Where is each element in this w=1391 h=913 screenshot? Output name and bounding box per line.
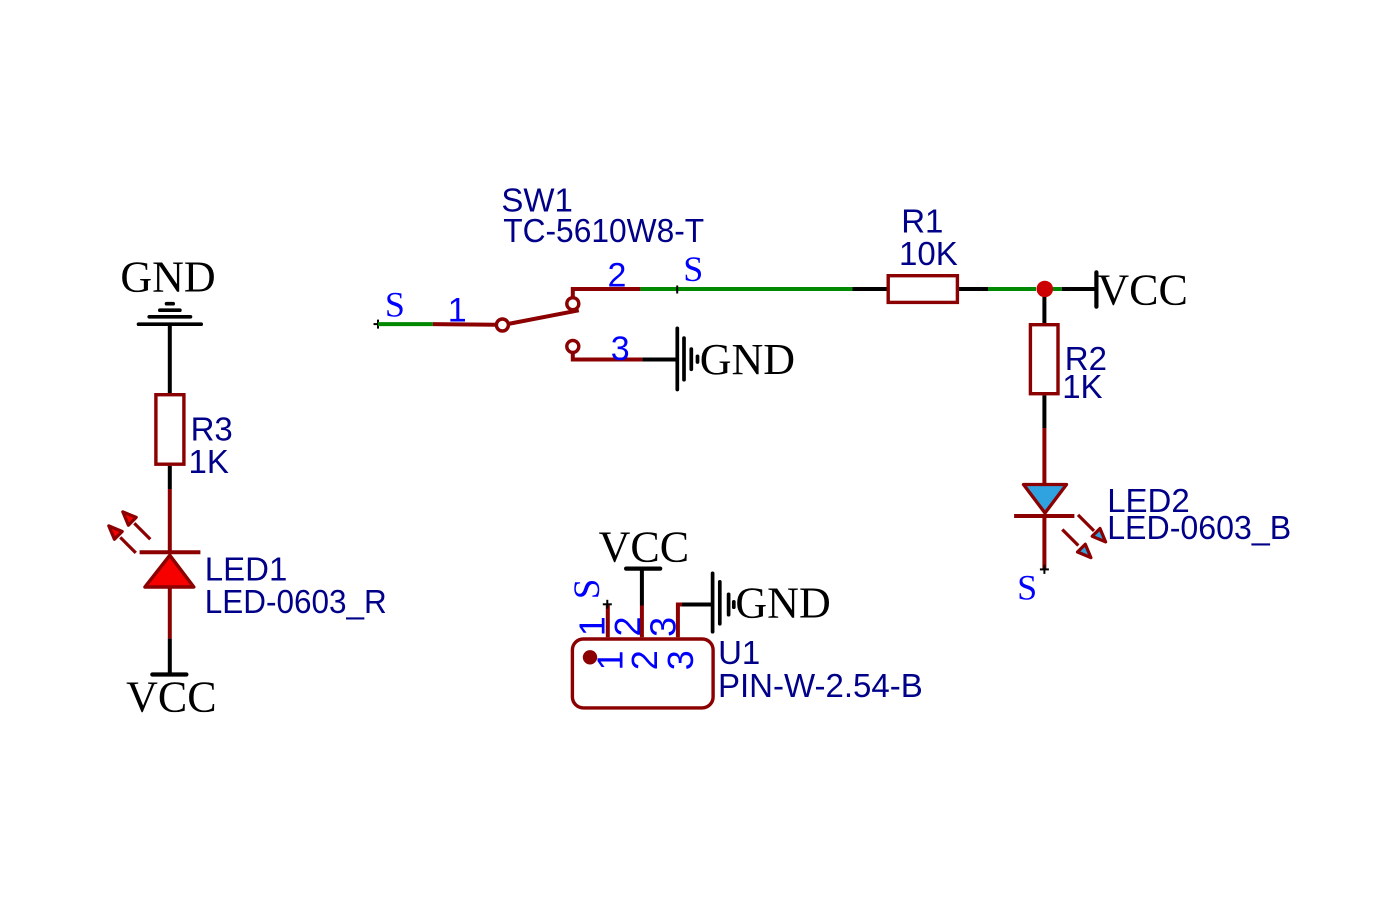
- pin wire LED2 to S (dark red): [1042, 516, 1046, 569]
- svg-text:VCC: VCC: [599, 522, 689, 571]
- svg-text:1K: 1K: [1062, 368, 1102, 405]
- switch pin 1 terminal circle: [496, 319, 508, 331]
- svg-text:1: 1: [448, 292, 467, 330]
- svg-text:GND: GND: [700, 335, 795, 384]
- resistor R3 body: [156, 395, 184, 465]
- switch pin 3 terminal circle: [567, 340, 579, 352]
- pin 2 stub (dark red): [640, 606, 644, 638]
- svg-text:1K: 1K: [189, 443, 229, 480]
- pin number 2 (rotated): [607, 616, 648, 636]
- switch pin 2 terminal circle: [567, 298, 579, 310]
- svg-text:PIN-W-2.54-B: PIN-W-2.54-B: [718, 667, 923, 704]
- svg-text:VCC: VCC: [1097, 265, 1187, 314]
- pin number 2: [608, 257, 627, 295]
- pad number 2 (rotated, inside): [624, 650, 665, 670]
- power flag VCC bottom-left: [126, 672, 216, 721]
- wire pin3 to GND (black): [642, 358, 677, 362]
- wire U1 pin3 to GND (black): [678, 603, 713, 607]
- svg-text:GND: GND: [120, 253, 215, 302]
- ground symbol top-left: [139, 304, 202, 325]
- pin 1 wire (dark red): [433, 322, 497, 327]
- svg-text:S: S: [385, 284, 405, 324]
- svg-text:3: 3: [611, 330, 630, 368]
- LED2 cathode bar: [1014, 514, 1074, 518]
- wire R1 to junction (green): [988, 287, 1036, 291]
- net label S (below LED2): [1017, 568, 1037, 608]
- svg-text:2: 2: [608, 257, 627, 295]
- wire junction to VCC (black): [1062, 287, 1097, 291]
- wire VCC to U1 pin2 (black): [640, 569, 644, 606]
- svg-text:S: S: [683, 249, 703, 289]
- wire GND to R3: [168, 324, 172, 393]
- wire junction to VCC (green): [1053, 287, 1062, 291]
- label R1 value 10K: [899, 203, 958, 273]
- svg-text:LED-0603_R: LED-0603_R: [205, 583, 387, 620]
- svg-text:R1: R1: [901, 203, 943, 240]
- pin 2 wire (dark red): [573, 289, 641, 298]
- svg-text:U1: U1: [718, 634, 760, 671]
- svg-text:10K: 10K: [899, 235, 958, 272]
- svg-text:VCC: VCC: [126, 672, 216, 721]
- label U1 PIN-W-2.54-B: [718, 634, 923, 704]
- switch lever: [509, 310, 579, 324]
- net flag GND text (U1): [735, 578, 830, 627]
- label R3 value 1K: [189, 411, 233, 480]
- pad number 3 (rotated, inside): [660, 650, 701, 670]
- svg-text:GND: GND: [735, 578, 830, 627]
- net label S (U1 pin1, rotated): [567, 579, 608, 600]
- svg-text:S: S: [567, 579, 608, 600]
- pin number 3: [611, 330, 630, 368]
- pin wire LED1 to VCC (dark red): [168, 587, 172, 639]
- ground symbol (U1): [713, 573, 734, 631]
- junction dot: [1037, 281, 1054, 298]
- LED2 triangle (blue): [1024, 485, 1067, 514]
- wire R3 to LED1 (black part): [168, 466, 172, 489]
- pin wire R2 to LED2 (dark red): [1042, 428, 1046, 483]
- LED1 cathode bar: [140, 550, 201, 554]
- net label S (left of SW1): [385, 284, 405, 324]
- label LED2 LED-0603_B: [1107, 482, 1291, 546]
- pin 1 stub (dark red): [606, 605, 610, 637]
- wire R1 to junction (black): [959, 287, 988, 291]
- pin end cross U1 pin1: [603, 600, 612, 609]
- pin 3 wire (dark red): [573, 352, 643, 359]
- net label S (on wire): [683, 249, 703, 289]
- pin 3 stub (dark red): [678, 605, 682, 638]
- label R2 value 1K: [1062, 340, 1107, 405]
- pin 1 marker dot: [583, 650, 597, 664]
- label LED1 LED-0603_R: [205, 551, 387, 620]
- wire S to SW1 pin1 (green): [378, 322, 433, 326]
- net flag GND top-left text: [120, 253, 215, 302]
- net flag VCC (U1): [599, 522, 689, 571]
- net flag GND text (switch): [700, 335, 795, 384]
- pin end cross LED2: [1040, 565, 1049, 574]
- power flag VCC right: [1096, 265, 1187, 314]
- net stub cross left: [374, 320, 383, 329]
- LED2 light arrow b: [1062, 530, 1091, 558]
- svg-text:LED-0603_B: LED-0603_B: [1107, 509, 1291, 546]
- pad number 1 (rotated, inside): [589, 650, 630, 670]
- svg-text:TC-5610W8-T: TC-5610W8-T: [503, 212, 704, 249]
- wire pin2 to R1 (green): [640, 287, 852, 291]
- wire LED1 to VCC (black): [168, 639, 172, 675]
- LED2 light arrow a: [1078, 515, 1106, 542]
- pin number 1 (rotated): [572, 616, 613, 636]
- connector U1 body: [572, 639, 713, 708]
- net label anchor tick: [676, 286, 678, 294]
- pin wire R3 to LED1 (dark red part): [168, 489, 172, 552]
- svg-text:3: 3: [642, 617, 683, 637]
- wire R2 to LED2 (black): [1042, 395, 1046, 428]
- ground symbol (switch pin 3): [677, 328, 697, 389]
- pin number 1: [448, 292, 467, 330]
- wire junction to R2 (black): [1042, 297, 1046, 323]
- svg-text:S: S: [1017, 568, 1037, 608]
- LED1 light arrow b: [109, 526, 136, 553]
- wire to R1 (black): [853, 287, 887, 291]
- LED1 triangle (red): [145, 555, 194, 587]
- label SW1 TC-5610W8-T: [501, 182, 704, 250]
- resistor R1 body: [888, 276, 957, 303]
- LED1 light arrow a: [123, 512, 151, 540]
- svg-text:3: 3: [660, 650, 701, 670]
- pin number 3 (rotated): [642, 617, 683, 637]
- resistor R2 body: [1030, 325, 1058, 394]
